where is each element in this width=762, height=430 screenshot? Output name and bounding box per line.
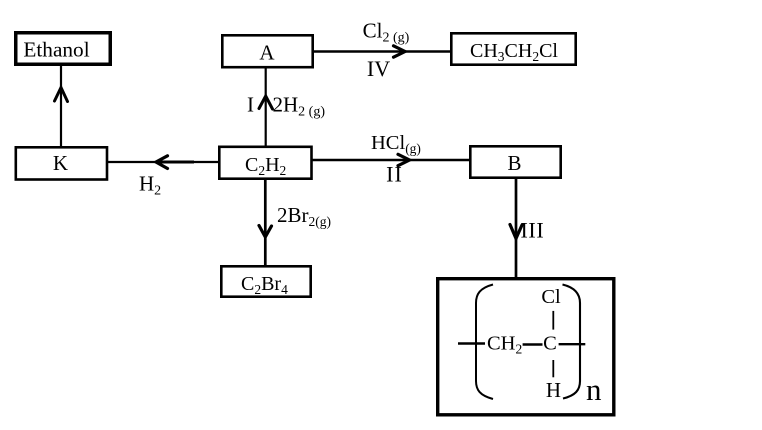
bond dash left outer bbox=[458, 342, 485, 344]
svg-text:H: H bbox=[546, 378, 561, 402]
svg-text:I: I bbox=[247, 93, 254, 117]
wire C2H2 to C2Br4 bbox=[264, 178, 267, 267]
svg-text:C: C bbox=[543, 333, 557, 355]
polymer right bracket bbox=[563, 285, 581, 399]
svg-text:B: B bbox=[507, 151, 521, 175]
polymer left bracket bbox=[476, 285, 493, 400]
svg-text:IV: IV bbox=[367, 56, 390, 81]
svg-text:Ethanol: Ethanol bbox=[23, 37, 89, 61]
svg-text:K: K bbox=[53, 151, 68, 175]
arrowhead right (A to CH3CH2Cl) bbox=[394, 46, 406, 57]
arrowhead left (C2H2 to K) bbox=[156, 156, 168, 169]
bond C right outer bbox=[559, 343, 586, 345]
arrowhead up (K to Ethanol) bbox=[55, 88, 68, 102]
svg-text:III: III bbox=[521, 217, 545, 242]
svg-text:A: A bbox=[259, 41, 275, 65]
bond Cl-C bbox=[552, 311, 554, 330]
arrow shaft thick (C2H2 to K) bbox=[156, 161, 194, 164]
wire C2H2 to B bbox=[310, 159, 470, 161]
svg-text:n: n bbox=[586, 372, 602, 407]
wire A to CH3CH2Cl bbox=[312, 50, 452, 52]
svg-text:Cl: Cl bbox=[541, 286, 561, 308]
wire C2H2 to A bbox=[265, 66, 267, 148]
svg-text:CH3CH2Cl: CH3CH2Cl bbox=[470, 40, 558, 64]
bond C-H bbox=[552, 360, 554, 377]
arrowhead down (B to polymer) bbox=[510, 225, 522, 239]
wire C2H2 to K bbox=[107, 161, 220, 163]
arrowhead down (C2H2 to C2Br4) bbox=[259, 226, 272, 238]
box C2H2 bbox=[219, 147, 311, 179]
box C2Br4 bbox=[221, 266, 310, 296]
box polymer (PVC unit) bbox=[438, 279, 614, 415]
box A bbox=[222, 35, 312, 67]
arrowhead up (C2H2 to A), label I bbox=[259, 96, 273, 109]
wire K to Ethanol bbox=[60, 64, 62, 148]
svg-text:II: II bbox=[386, 162, 403, 187]
box K bbox=[16, 147, 107, 179]
bond CH2-C bbox=[523, 343, 543, 346]
box CH3CH2Cl bbox=[451, 33, 575, 64]
arrowhead right (C2H2 to B) bbox=[398, 154, 410, 165]
box Ethanol bbox=[16, 33, 111, 65]
wire B to polymer box bbox=[515, 178, 518, 278]
svg-text:C2Br4: C2Br4 bbox=[241, 273, 288, 297]
box B bbox=[470, 146, 560, 177]
